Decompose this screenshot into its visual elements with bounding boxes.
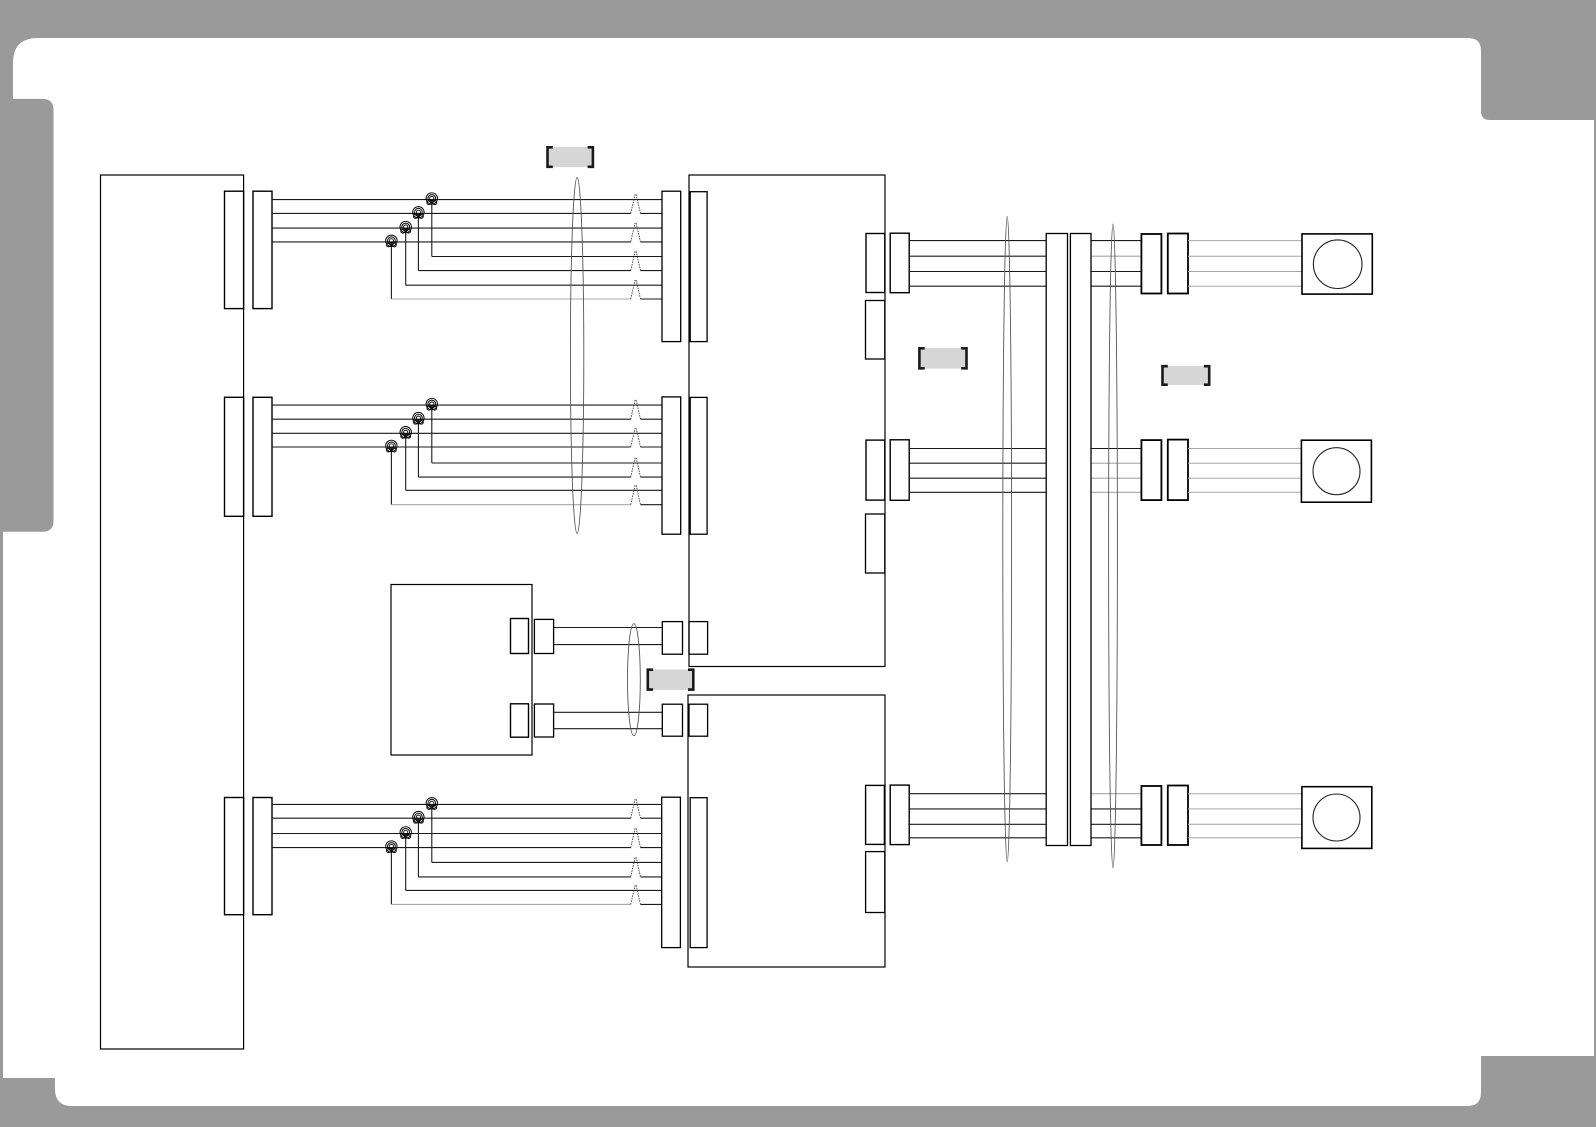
wire group2 drop 1 (vertical): [431, 405, 433, 463]
connector CN-D2' (outer mate): [534, 704, 553, 737]
wire D1-a: [554, 627, 663, 629]
ferrite bead group3-1: [426, 798, 437, 810]
connector CN-C2 (inner, on board C): [689, 704, 708, 736]
connector CN-B3 (outer mate): [662, 797, 681, 947]
wire group3 row6 (with twist): [418, 876, 662, 878]
spare connector on board B (upper): [866, 301, 885, 360]
connector CN-A1 (inner, on board A): [225, 191, 244, 308]
wire M1 lead 4: [1188, 285, 1302, 287]
wire R3 row4 to bus: [909, 837, 1046, 839]
wire group3 row4 (with twist): [272, 847, 662, 849]
cable loop E2: [628, 624, 641, 736]
connector CN-B4 (outer mate): [662, 622, 682, 655]
wire group1 row2 (with twist): [272, 212, 662, 214]
wire R3 row2 to bus: [909, 808, 1046, 810]
wire group3 row7: [406, 889, 662, 891]
twisted pair mark group2-3: [631, 458, 641, 477]
left side tab: [0, 99, 54, 532]
wire R1 row4 after bus: [1091, 285, 1141, 287]
twisted pair mark group1-4: [631, 280, 641, 299]
wire group2 drop 3 (vertical): [405, 433, 407, 490]
bus bar 2 (flat cable): [1070, 234, 1091, 846]
unit board A (left): [101, 175, 244, 1049]
spare connector on board B (lower): [866, 514, 885, 573]
ferrite bead group3-4: [386, 841, 397, 853]
label tag L4: [648, 669, 694, 690]
twisted pair mark group3-4: [631, 885, 641, 904]
wire group2 row4 (with twist): [272, 446, 662, 448]
wire group2 drop 4 (vertical): [390, 447, 392, 505]
wire R2 row2 after bus: [1091, 462, 1141, 464]
motor M1 housing: [1302, 234, 1372, 294]
wire group2 row5: [432, 462, 662, 464]
twisted pair mark group2-2: [631, 428, 641, 447]
twisted pair mark group2-1: [631, 400, 641, 419]
unit board D (middle small): [391, 585, 532, 756]
wire M1 lead 2: [1188, 255, 1302, 257]
wire R3 row2 after bus: [1091, 808, 1141, 810]
connector CN-D1' (outer mate): [534, 619, 553, 653]
twisted pair mark group3-1: [631, 799, 641, 818]
ferrite bead group2-3: [400, 427, 411, 439]
wire group2 row2 (with twist): [272, 418, 662, 420]
wire group2 row3: [272, 432, 662, 434]
ferrite bead group2-1: [426, 398, 437, 410]
ferrite bead group1-2: [413, 207, 424, 219]
wire group2 row1: [272, 404, 662, 406]
wire group1 drop 4 (vertical): [390, 242, 392, 299]
wire group2 drop 2 (vertical): [417, 419, 419, 477]
ferrite bead group2-2: [413, 412, 424, 424]
motor M2 rotor circle: [1313, 448, 1360, 495]
wire group3 row8 (light): [391, 903, 662, 905]
connector CN-D2 (inner, on board D): [511, 704, 529, 737]
wire R1 row2 after bus: [1091, 255, 1141, 257]
wire M2 lead 1: [1188, 448, 1301, 450]
wire R2 row4 to bus: [909, 491, 1046, 493]
wire R1 row4 to bus: [909, 285, 1046, 287]
wire group3 row1: [272, 803, 662, 805]
wire group1 row1: [272, 199, 662, 201]
wire R2 row3 after bus: [1091, 477, 1141, 479]
connector CN-A2 (inner, on board A): [225, 397, 244, 516]
wire R3 row1 to bus: [909, 793, 1046, 795]
twisted pair mark group1-2: [631, 223, 641, 242]
wire M2 lead 3: [1188, 477, 1301, 479]
wire R3 row3 to bus: [909, 823, 1046, 825]
connector CN-B1 (outer mate): [662, 191, 681, 341]
connector CN-B3 (inner, on board): [690, 798, 707, 948]
wire group1 drop 1 (vertical): [431, 200, 433, 257]
connector CN-B1 (inner, on board): [690, 192, 707, 342]
connector CN-R3 (inner, on board): [866, 785, 885, 844]
wire R1 row3 after bus: [1091, 271, 1141, 273]
twisted pair mark group2-4: [631, 485, 641, 505]
wire R2 row1 after bus: [1091, 448, 1141, 450]
ferrite bead group1-4: [386, 235, 397, 247]
ferrite bead group3-3: [400, 827, 411, 839]
motor M3 rotor circle: [1313, 794, 1360, 841]
wire group1 drop 2 (vertical): [417, 213, 419, 270]
ferrite bead group1-1: [426, 193, 437, 205]
wire M1 lead 1: [1188, 240, 1302, 242]
wire group1 row5: [432, 256, 662, 258]
twisted pair mark group3-2: [631, 828, 641, 847]
twisted pair mark group1-1: [631, 194, 641, 213]
ferrite bead group3-2: [413, 811, 424, 823]
wire M2 lead 2: [1188, 462, 1301, 464]
wire D2-b: [554, 728, 663, 730]
label tag L3: [1163, 366, 1210, 385]
wire D2-a: [554, 711, 663, 713]
wire M3 lead 3: [1188, 823, 1302, 825]
connector CN-C2 (outer mate): [662, 704, 682, 736]
connector CN-R2' (outer mate): [890, 440, 909, 501]
label tag L1: [548, 147, 593, 167]
motor M2 housing: [1301, 440, 1371, 502]
wire group2 row8 (light): [391, 504, 662, 506]
wire M3 lead 1: [1188, 793, 1302, 795]
wire R3 row4 after bus: [1091, 837, 1141, 839]
connector CN-M2a: [1141, 440, 1161, 500]
wire group1 row4 (with twist): [272, 241, 662, 243]
unit board C (center bottom): [688, 695, 885, 967]
wire group3 drop 4 (vertical): [390, 848, 392, 905]
wire group3 drop 1 (vertical): [431, 804, 433, 862]
wire group3 row2 (with twist): [272, 817, 662, 819]
motor M3 housing: [1302, 787, 1372, 849]
wire M3 lead 2: [1188, 808, 1302, 810]
connector CN-M3b: [1168, 786, 1188, 846]
wire R2 row3 to bus: [909, 477, 1046, 479]
label tag L2: [919, 348, 966, 369]
wire group1 drop 3 (vertical): [405, 228, 407, 285]
connector CN-A2' (outer mate): [253, 397, 272, 516]
wire R1 row1 to bus: [909, 240, 1046, 242]
connector CN-M2b: [1168, 440, 1188, 501]
wire R2 row2 to bus: [909, 462, 1046, 464]
wire group3 drop 3 (vertical): [405, 834, 407, 891]
unit board B (center top): [689, 175, 885, 667]
wire D1-b: [554, 644, 663, 646]
wire R1 row2 to bus: [909, 255, 1046, 257]
wire R1 row3 to bus: [909, 271, 1046, 273]
wire R3 row1 after bus: [1091, 793, 1141, 795]
twisted pair mark group1-3: [631, 251, 641, 270]
connector CN-B2 (inner, on board): [690, 397, 707, 534]
wire group2 row6 (with twist): [418, 476, 662, 478]
wire group3 row5: [432, 861, 662, 863]
wire M3 lead 4: [1188, 837, 1302, 839]
wire R2 row4 after bus: [1091, 491, 1141, 493]
connector CN-R1' (outer mate): [890, 233, 909, 293]
wire M1 lead 3: [1188, 271, 1302, 273]
connector CN-A3' (outer mate): [253, 798, 272, 915]
wire group3 row3: [272, 833, 662, 835]
connector CN-R1 (inner, on board): [866, 234, 885, 293]
wire M2 lead 4: [1188, 491, 1301, 493]
motor M1 rotor circle: [1313, 240, 1362, 289]
connector CN-M1b: [1168, 234, 1188, 294]
wire R2 row1 to bus: [909, 448, 1046, 450]
wire group3 drop 2 (vertical): [417, 818, 419, 877]
connector CN-B2 (outer mate): [662, 397, 681, 534]
connector CN-A3 (inner, on board A): [225, 798, 244, 915]
connector CN-M1a: [1141, 234, 1161, 294]
connector CN-D1 (inner, on board D): [511, 619, 529, 654]
connector CN-M3a: [1141, 786, 1161, 845]
wire R1 row1 after bus: [1091, 240, 1141, 242]
connector CN-A1' (outer mate): [253, 191, 272, 308]
ferrite bead group2-4: [386, 440, 397, 452]
twisted pair mark group3-3: [631, 857, 641, 877]
bus bar 1 (flat cable): [1046, 234, 1067, 846]
connector CN-R2 (inner, on board): [866, 440, 885, 500]
wire group1 row8 (light): [391, 298, 662, 300]
connector CN-R3' (outer mate): [890, 785, 909, 845]
cable loop E1: [570, 178, 583, 534]
cable loop E4: [1109, 224, 1118, 868]
ferrite bead group1-3: [400, 221, 411, 233]
cable loop E3: [1003, 217, 1012, 863]
connector CN-B4 (inner, on board B): [689, 622, 708, 655]
wire group1 row6 (with twist): [418, 270, 662, 272]
wire group1 row7: [406, 284, 662, 286]
wire R3 row3 after bus: [1091, 823, 1141, 825]
spare connector on board C: [866, 852, 885, 913]
wire group1 row3: [272, 227, 662, 229]
wire group2 row7: [406, 489, 662, 491]
